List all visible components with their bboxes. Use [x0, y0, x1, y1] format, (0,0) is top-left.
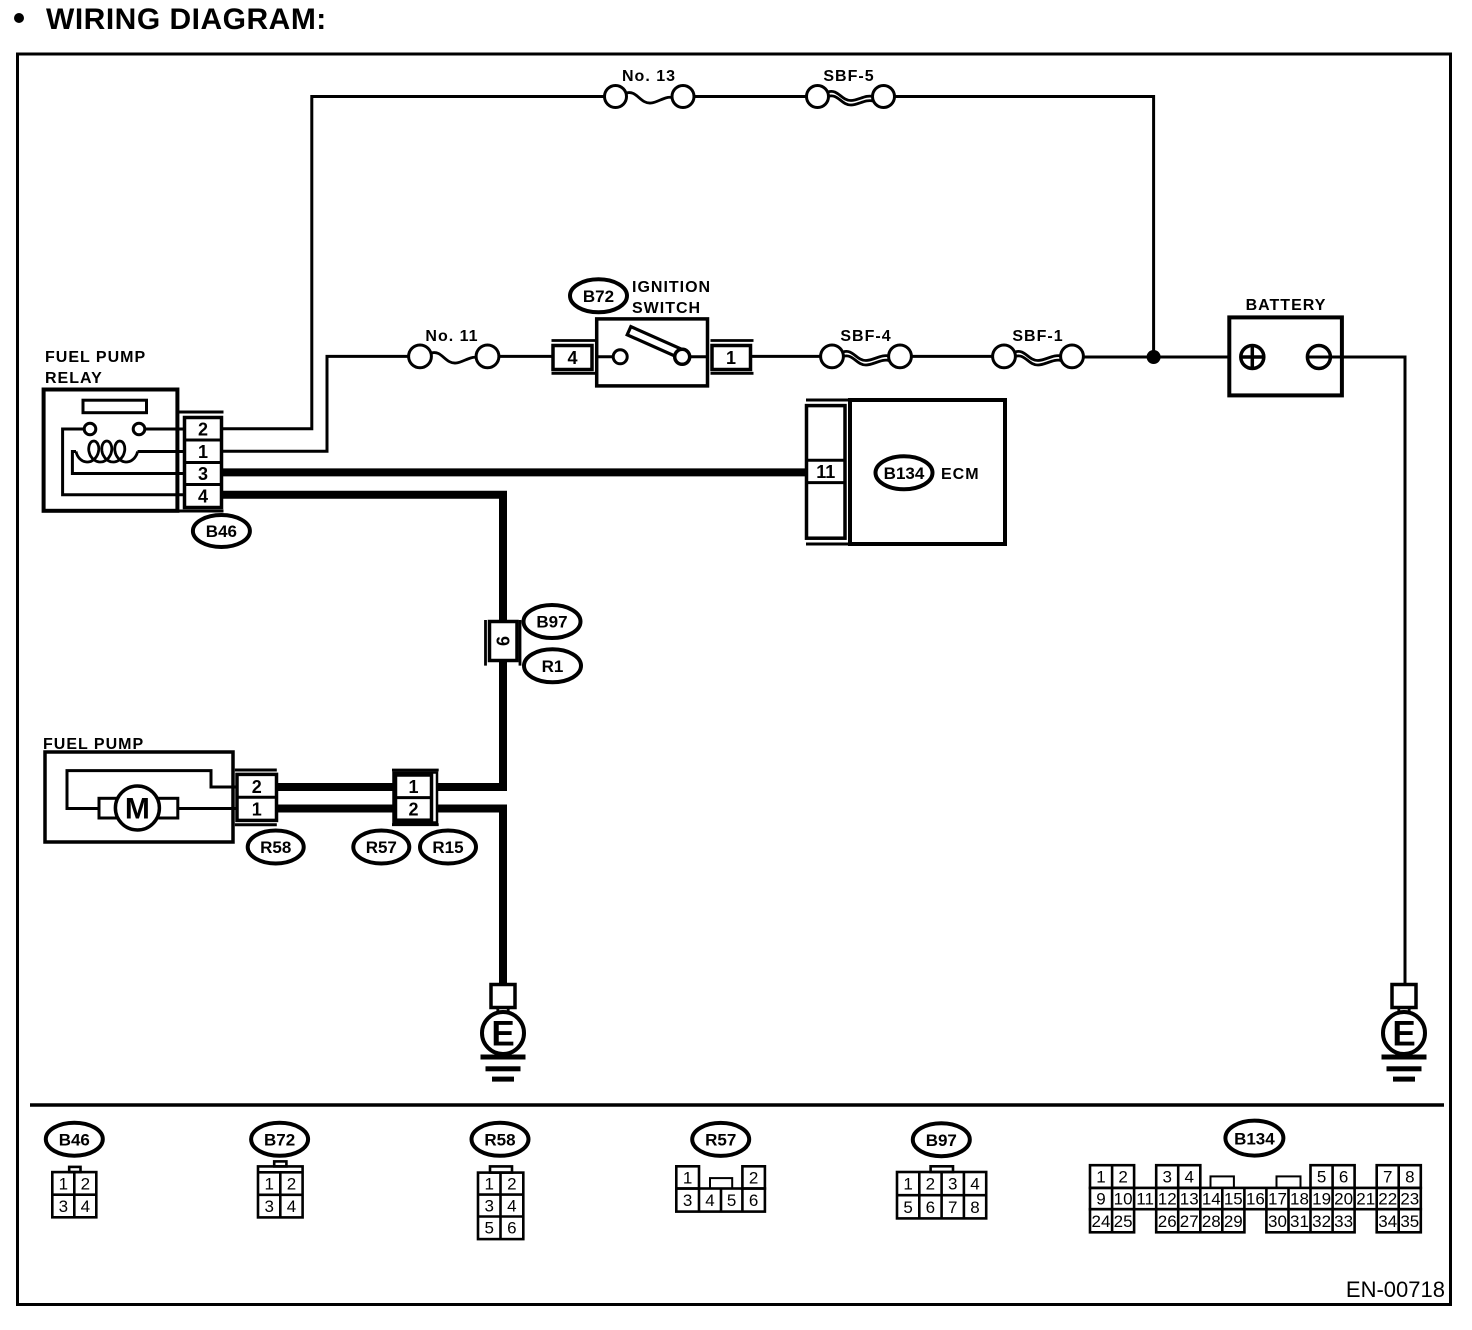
svg-text:6: 6	[1339, 1168, 1348, 1187]
svg-text:B46: B46	[206, 522, 237, 541]
svg-text:24: 24	[1092, 1212, 1111, 1231]
pinout R57 connector	[676, 1166, 699, 1188]
wire: motor to R58 pin1	[178, 807, 238, 810]
svg-text:6: 6	[494, 636, 514, 646]
pinout B97 oval	[913, 1123, 970, 1156]
svg-text:SWITCH: SWITCH	[632, 300, 701, 317]
wire: coil left lead down to pin3	[72, 452, 184, 474]
pinout R57 oval	[692, 1123, 749, 1156]
ECM connector caps	[806, 400, 850, 544]
svg-text:29: 29	[1224, 1212, 1243, 1231]
svg-text:3: 3	[264, 1197, 273, 1216]
svg-text:17: 17	[1268, 1190, 1287, 1209]
connector pin 1 box	[712, 346, 751, 370]
motor brush right	[157, 798, 178, 818]
svg-text:12: 12	[1158, 1190, 1177, 1209]
svg-text:6: 6	[507, 1219, 516, 1238]
connector R58 caps	[235, 770, 277, 825]
svg-text:4: 4	[970, 1175, 979, 1194]
ground E (right)	[1382, 985, 1427, 1082]
svg-text:B97: B97	[536, 613, 567, 632]
relay contact circle right	[133, 423, 145, 435]
battery plus terminal	[1241, 346, 1264, 369]
svg-text:6: 6	[749, 1191, 758, 1210]
connector R58 pin box	[237, 774, 277, 820]
wire: R58 pin1 to R57 pin2 (thick)	[277, 805, 397, 813]
svg-text:2: 2	[81, 1174, 90, 1193]
svg-text:IGNITION: IGNITION	[632, 279, 711, 296]
connector B46 cap bottom	[177, 510, 223, 513]
svg-text:SBF-1: SBF-1	[1012, 328, 1063, 345]
fuse SBF-5	[807, 86, 829, 108]
wire: right contact to pin2	[145, 428, 185, 431]
connector B46 cap top	[177, 411, 223, 414]
pinout B72 oval	[251, 1123, 308, 1156]
connector label B134 oval	[876, 456, 933, 489]
svg-text:3: 3	[1162, 1168, 1171, 1187]
node: junction of top bus and battery feed	[1147, 350, 1161, 364]
svg-text:R58: R58	[260, 838, 291, 857]
wire: fuse No.11 to connector 4	[499, 355, 553, 358]
svg-text:1: 1	[484, 1175, 493, 1194]
relay contact circle left	[84, 423, 96, 435]
svg-text:22: 22	[1378, 1190, 1397, 1209]
svg-text:5: 5	[1317, 1168, 1326, 1187]
relay K1 box	[44, 390, 178, 511]
svg-text:WIRING DIAGRAM:: WIRING DIAGRAM:	[46, 3, 327, 36]
svg-text:11: 11	[1136, 1190, 1154, 1209]
wire: relay pin1 up to ignition feed line, to fuse No.11	[222, 356, 409, 451]
svg-text:23: 23	[1400, 1190, 1419, 1209]
svg-text:1: 1	[903, 1175, 912, 1194]
connector R15 outer box	[394, 773, 438, 823]
svg-text:4: 4	[567, 348, 577, 368]
svg-text:16: 16	[1246, 1190, 1265, 1209]
svg-text:31: 31	[1290, 1212, 1309, 1231]
svg-text:3: 3	[683, 1191, 692, 1210]
connector 6 (B97/R1) caps	[486, 620, 521, 666]
svg-text:RELAY: RELAY	[45, 370, 103, 387]
svg-text:6: 6	[926, 1198, 935, 1217]
relay coil	[76, 441, 138, 462]
svg-text:4: 4	[705, 1191, 714, 1210]
svg-text:FUEL PUMP: FUEL PUMP	[45, 349, 146, 366]
svg-text:1: 1	[198, 442, 208, 462]
svg-text:4: 4	[1184, 1168, 1193, 1187]
svg-text:18: 18	[1290, 1190, 1309, 1209]
svg-text:2: 2	[1118, 1168, 1127, 1187]
wire: relay pin2 to top bus, top bus to battery junction	[222, 97, 605, 429]
svg-text:5: 5	[903, 1198, 912, 1217]
wire: top bus from SBF-5 to junction, down to battery line	[895, 97, 1154, 358]
wire: throw to box edge	[690, 355, 708, 358]
svg-text:1: 1	[408, 777, 418, 797]
svg-text:5: 5	[484, 1219, 493, 1238]
svg-text:30: 30	[1268, 1212, 1287, 1231]
svg-text:27: 27	[1180, 1212, 1199, 1231]
svg-text:R58: R58	[484, 1131, 515, 1150]
ground E (left)	[481, 985, 526, 1082]
ECM U1 box	[850, 400, 1005, 544]
svg-text:2: 2	[507, 1175, 516, 1194]
svg-text:B72: B72	[583, 287, 614, 306]
svg-text:3: 3	[948, 1175, 957, 1194]
ignition switch box	[597, 319, 708, 386]
connector pin 4 box	[553, 346, 592, 370]
fuse SBF-4	[821, 345, 844, 368]
svg-text:7: 7	[948, 1198, 957, 1217]
motor M circle	[115, 786, 159, 830]
motor brush left	[99, 798, 118, 818]
svg-text:2: 2	[198, 420, 208, 440]
connector label R57 oval	[353, 831, 409, 864]
svg-text:1: 1	[59, 1174, 68, 1193]
ECM connector pin column	[807, 406, 846, 539]
separator line	[30, 1103, 1444, 1107]
pinout B97 connector	[931, 1166, 953, 1172]
fuse SBF-1	[993, 345, 1016, 368]
svg-text:13: 13	[1180, 1190, 1199, 1209]
svg-text:2: 2	[252, 777, 262, 797]
svg-text:32: 32	[1312, 1212, 1331, 1231]
svg-text:B134: B134	[1234, 1129, 1275, 1148]
svg-text:E: E	[1392, 1014, 1415, 1053]
connector B46 pin column	[185, 418, 222, 508]
svg-text:1: 1	[252, 800, 262, 820]
connector label B46 oval	[193, 515, 250, 547]
battery minus terminal	[1307, 346, 1330, 369]
svg-text:8: 8	[1405, 1168, 1414, 1187]
svg-text:B46: B46	[59, 1130, 90, 1149]
svg-text:3: 3	[484, 1197, 493, 1216]
svg-text:7: 7	[1383, 1168, 1392, 1187]
svg-text:5: 5	[727, 1191, 736, 1210]
svg-text:SBF-4: SBF-4	[840, 328, 891, 345]
svg-text:1: 1	[726, 348, 736, 368]
svg-text:R57: R57	[705, 1131, 736, 1150]
wire: SBF-1 to battery plus terminal	[1083, 356, 1240, 359]
wire: connector 1 to fuse SBF-4	[751, 355, 821, 358]
connector pin 1 caps	[711, 341, 754, 374]
pinout B46 oval	[46, 1123, 103, 1156]
svg-text:ECM: ECM	[941, 466, 980, 483]
svg-text:34: 34	[1378, 1212, 1397, 1231]
svg-text:14: 14	[1202, 1190, 1221, 1209]
svg-text:2: 2	[408, 800, 418, 820]
connector label R1 oval	[524, 649, 581, 682]
pinout B134 keying notches	[1211, 1176, 1234, 1188]
pinout B46 connector	[69, 1167, 80, 1172]
pinout B134 top row pins 1-8	[1090, 1165, 1134, 1188]
pinout B134 middle row pins 9-23	[1090, 1188, 1421, 1209]
connector pin 4 caps	[552, 341, 597, 374]
svg-text:28: 28	[1202, 1212, 1221, 1231]
svg-text:2: 2	[287, 1175, 296, 1194]
connector B72 oval label	[570, 279, 627, 312]
svg-text:8: 8	[970, 1198, 979, 1217]
title bullet	[14, 13, 24, 23]
svg-text:B134: B134	[884, 464, 925, 483]
svg-text:No. 13: No. 13	[622, 68, 676, 85]
svg-text:35: 35	[1400, 1212, 1419, 1231]
relay contact plate	[83, 400, 147, 413]
pinout B134 bottom row pins 24-35	[1090, 1209, 1134, 1232]
pinout B134 oval	[1225, 1121, 1283, 1156]
svg-text:4: 4	[507, 1197, 516, 1216]
svg-text:2: 2	[926, 1175, 935, 1194]
svg-text:E: E	[491, 1014, 514, 1053]
pinout R58 oval	[472, 1123, 529, 1156]
wire: top bus between fuse No.13 and SBF-5	[694, 95, 807, 98]
svg-text:4: 4	[198, 487, 208, 507]
svg-text:2: 2	[749, 1168, 758, 1187]
svg-text:9: 9	[1096, 1190, 1105, 1209]
switch throw circle	[675, 349, 690, 364]
wire: left contact to pin4	[63, 429, 185, 495]
svg-text:No. 11: No. 11	[425, 328, 478, 345]
wire: minus terminal to right ground drop	[1308, 357, 1405, 985]
svg-text:BATTERY: BATTERY	[1246, 297, 1327, 314]
wire: SBF-4 to SBF-1	[911, 355, 992, 358]
svg-text:B97: B97	[926, 1131, 957, 1150]
svg-text:1: 1	[1096, 1168, 1105, 1187]
svg-text:15: 15	[1224, 1190, 1243, 1209]
svg-text:20: 20	[1334, 1190, 1353, 1209]
svg-text:4: 4	[287, 1197, 296, 1216]
svg-text:3: 3	[59, 1197, 68, 1216]
svg-text:R15: R15	[432, 838, 463, 857]
connector label R15 oval	[420, 831, 476, 864]
svg-text:1: 1	[264, 1175, 273, 1194]
connector R57 pin box	[396, 775, 432, 820]
svg-text:19: 19	[1312, 1190, 1331, 1209]
wire: coil right lead to pin1	[138, 450, 185, 453]
switch lever bar	[627, 327, 684, 359]
svg-text:B72: B72	[264, 1131, 295, 1150]
svg-text:3: 3	[198, 464, 208, 484]
svg-text:SBF-5: SBF-5	[823, 68, 874, 85]
svg-text:M: M	[125, 793, 150, 826]
wire: R57 pin2 to left ground (thick)	[438, 809, 504, 985]
svg-text:21: 21	[1356, 1190, 1375, 1209]
switch pole circle	[613, 350, 627, 364]
svg-text:4: 4	[81, 1197, 90, 1216]
svg-text:1: 1	[683, 1168, 692, 1187]
pinout B72 connector	[274, 1161, 286, 1166]
pinout R58 connector	[490, 1166, 512, 1172]
fuel pump box	[45, 752, 233, 842]
svg-text:26: 26	[1158, 1212, 1177, 1231]
svg-text:R1: R1	[542, 657, 564, 676]
svg-text:11: 11	[816, 462, 835, 482]
svg-text:33: 33	[1334, 1212, 1353, 1231]
wire: relay pin4 down through connector 6 to R57 pin1 (thick)	[222, 495, 504, 787]
connector 6 box	[490, 622, 518, 661]
svg-text:10: 10	[1114, 1190, 1133, 1209]
svg-text:R57: R57	[366, 838, 397, 857]
fuse No.13	[605, 86, 627, 108]
svg-text:EN-00718: EN-00718	[1346, 1277, 1445, 1302]
battery BT1 box	[1229, 317, 1342, 395]
fuse No.11	[409, 345, 432, 368]
wire: box edge to switch pole	[597, 355, 613, 358]
svg-text:25: 25	[1114, 1212, 1133, 1231]
connector label B97 oval	[524, 605, 581, 638]
connector label R58 oval	[248, 831, 304, 864]
wire: R58 pin2 to R57 pin1 (thick)	[277, 783, 397, 791]
wire: relay pin3 to ECM pin 11 (thick)	[222, 468, 808, 476]
wire: pump loop from R58 pin2	[67, 771, 237, 809]
connector R57/R15 caps	[392, 770, 439, 825]
